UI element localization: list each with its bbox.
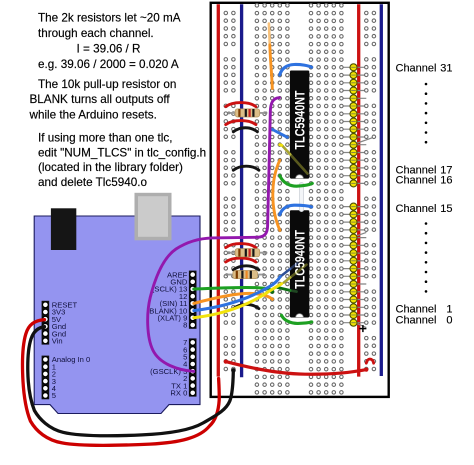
svg-text:Channel: Channel — [396, 314, 437, 326]
USB connector — [51, 208, 76, 250]
resistor R1 2k — [227, 109, 267, 117]
red wire end caps — [224, 360, 228, 364]
power rail line blue left — [240, 4, 243, 377]
Arduino pins and labels — [43, 270, 196, 400]
purple wire GSCLK pin3 to d12 — [148, 98, 280, 372]
black jumper wire arc B — [233, 166, 259, 170]
svg-text:The 10k pull-up resistor on: The 10k pull-up resistor on — [38, 78, 176, 91]
pin header strip right digital upper — [189, 271, 197, 329]
IC U2 TLC5940NT — [290, 210, 309, 317]
yellow wire XLAT pin9 to d36 — [194, 284, 282, 318]
svg-text:while the Arduino resets.: while the Arduino resets. — [29, 108, 157, 121]
svg-text:edit "NUM_TLCS" in tlc_config.: edit "NUM_TLCS" in tlc_config.h — [38, 147, 206, 160]
svg-text:Channel: Channel — [396, 203, 437, 215]
gray channel jumper wires to header — [341, 67, 374, 327]
red jumper wire arc B — [226, 121, 256, 125]
white wire chip U1 to U2 — [299, 185, 304, 210]
power jack — [135, 193, 172, 241]
svg-text:31: 31 — [440, 62, 452, 74]
blue wire BLANK pin10 to d35 — [194, 277, 280, 311]
ellipsis dots — [425, 83, 428, 293]
orange wire segment SIN top — [268, 24, 271, 46]
red jumper wire arc D — [226, 258, 256, 262]
black jumper wire arc D — [233, 304, 259, 308]
svg-text:5: 5 — [52, 391, 56, 400]
plus sign right rail — [359, 325, 366, 332]
power rail line red left — [217, 4, 220, 376]
pin header strip left power — [42, 301, 50, 345]
svg-text:(located in the library folder: (located in the library folder) — [38, 161, 183, 174]
green wire end cap dark — [270, 290, 274, 294]
svg-text:Analog In 0: Analog In 0 — [52, 355, 90, 364]
yellow wire over U2 — [284, 278, 290, 283]
svg-text:and delete Tlc5940.o: and delete Tlc5940.o — [38, 176, 147, 189]
Arduino board U3 — [34, 216, 200, 414]
green jumper wire below U1 — [280, 176, 313, 187]
svg-text:e.g. 39.06 / 2000 = 0.020 A: e.g. 39.06 / 2000 = 0.020 A — [38, 58, 179, 71]
svg-text:Vin: Vin — [52, 337, 63, 346]
green wire SCLK pin13 to c37 — [194, 287, 272, 291]
svg-text:15: 15 — [440, 203, 452, 215]
svg-text:RX 0: RX 0 — [170, 389, 187, 398]
red jumper curl right rail — [366, 359, 373, 363]
orange wire SIN pin11 to c38 — [194, 293, 273, 303]
svg-text:8: 8 — [183, 321, 187, 330]
svg-text:Channel: Channel — [396, 174, 437, 186]
green wire over U2 edge — [277, 287, 290, 290]
svg-text:Channel: Channel — [396, 62, 437, 74]
svg-text:through each channel.: through each channel. — [38, 27, 154, 40]
svg-text:BLANK turns all outputs off: BLANK turns all outputs off — [30, 93, 171, 106]
yellow wire over U1 (to XLAT) — [282, 146, 290, 155]
yellow wire end at d18 — [280, 143, 282, 147]
blue wire over U2 — [281, 269, 290, 276]
IC U1 TLC5940NT — [290, 71, 309, 179]
svg-text:I = 39.06 / R: I = 39.06 / R — [77, 42, 141, 55]
red jumper wire arc C — [226, 244, 256, 248]
resistor R3 10k — [225, 271, 265, 279]
green jumper wire below U2 — [282, 315, 312, 323]
svg-text:16: 16 — [440, 174, 452, 186]
svg-text:If using more than one tlc,: If using more than one tlc, — [38, 132, 172, 145]
pin header strip right digital lower — [189, 338, 197, 396]
breadboard — [211, 3, 389, 397]
black wire Gnd loop to left rail — [28, 327, 234, 436]
red wire rail-to-rail bottom — [226, 362, 366, 375]
breadboard hole grid — [224, 4, 376, 395]
annotation text block — [29, 11, 207, 189]
blue jumper wire over U2 top — [280, 205, 312, 214]
resistor R2 2k — [227, 249, 267, 257]
pin header strip left analog — [42, 356, 50, 400]
svg-text:0: 0 — [446, 314, 452, 326]
power rail line blue right — [380, 4, 383, 376]
blue jumper wire c16-e17 — [272, 129, 287, 137]
svg-text:TLC5940NT: TLC5940NT — [292, 230, 308, 289]
red jumper wire arc A — [226, 103, 256, 107]
channel labels — [396, 62, 453, 326]
svg-text:The 2k resistors let ~20 mA: The 2k resistors let ~20 mA — [38, 11, 181, 24]
channel pin header (yellow sockets) — [350, 64, 357, 326]
black wire end cap — [231, 368, 236, 373]
black jumper wire arc A — [233, 128, 257, 132]
red wire 5V loop to left rail — [22, 320, 219, 446]
svg-text:TLC5940NT: TLC5940NT — [292, 90, 308, 149]
black jumper wire arc C — [233, 266, 259, 270]
power rail line red right — [357, 4, 360, 376]
orange wire segment d20-d29 — [273, 160, 280, 230]
blue jumper wire over U1 top — [280, 64, 312, 74]
